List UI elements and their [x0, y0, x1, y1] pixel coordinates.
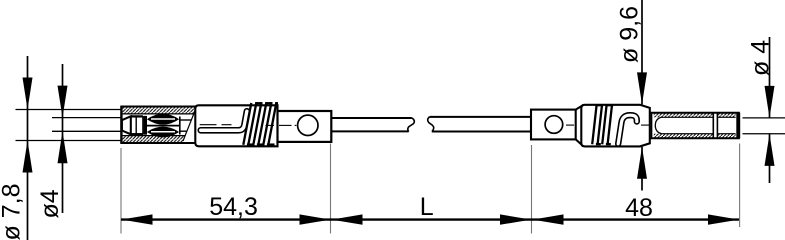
svg-text:48: 48 — [625, 194, 653, 222]
svg-text:ø 7,8: ø 7,8 — [0, 184, 26, 240]
svg-text:ø 9,6: ø 9,6 — [616, 6, 644, 63]
svg-text:ø 4: ø 4 — [747, 40, 775, 76]
svg-text:L: L — [420, 193, 434, 221]
svg-text:ø4: ø4 — [36, 189, 64, 218]
svg-text:54,3: 54,3 — [209, 193, 258, 221]
